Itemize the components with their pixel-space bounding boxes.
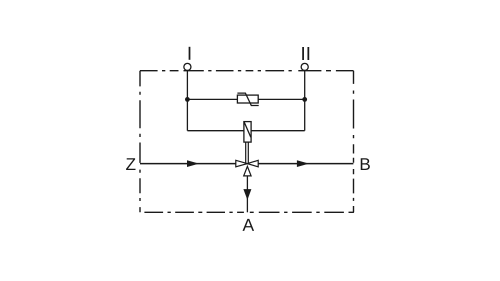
label Z bbox=[126, 158, 135, 170]
wire: upper rail right segment bbox=[258, 98, 305, 100]
shuttle valve left poppet (hollow triangle) bbox=[236, 160, 248, 167]
label II bbox=[302, 47, 309, 60]
orifice / nozzle (vertical rect) bbox=[244, 122, 251, 143]
flow arrow left (solid) bbox=[187, 160, 199, 167]
enclosure boundary (dash-dot manifold outline) bbox=[140, 71, 354, 213]
port I (circle) bbox=[184, 63, 191, 70]
wire: Z to B main line bbox=[140, 163, 353, 165]
wire: double pilot lines down to shuttle bbox=[246, 142, 249, 163]
wire: port I down to lower rail bbox=[186, 71, 188, 131]
label A bbox=[243, 219, 255, 231]
shuttle valve right poppet (hollow triangle) bbox=[247, 160, 258, 167]
node: junction dot left bbox=[185, 97, 190, 102]
wire: port II down to lower rail bbox=[304, 71, 306, 131]
check valve poppet (hollow triangle up) bbox=[244, 166, 251, 176]
flow arrow right (solid) bbox=[297, 160, 309, 167]
orifice diagonal bbox=[244, 122, 251, 137]
wire: lower rail left segment bbox=[187, 130, 244, 132]
adjustable throttle valve (rect body) bbox=[237, 95, 258, 103]
wire: lower rail right segment bbox=[251, 130, 305, 132]
node: junction dot right bbox=[302, 97, 307, 102]
flow arrow to A (solid down) bbox=[243, 189, 251, 200]
wire: upper rail left segment bbox=[187, 98, 237, 100]
port II (circle) bbox=[301, 63, 308, 70]
label I bbox=[189, 47, 191, 60]
wire: down to port A bbox=[246, 176, 248, 212]
label B bbox=[361, 158, 370, 170]
adjustable throttle valve (hooked diagonal) bbox=[237, 93, 258, 105]
